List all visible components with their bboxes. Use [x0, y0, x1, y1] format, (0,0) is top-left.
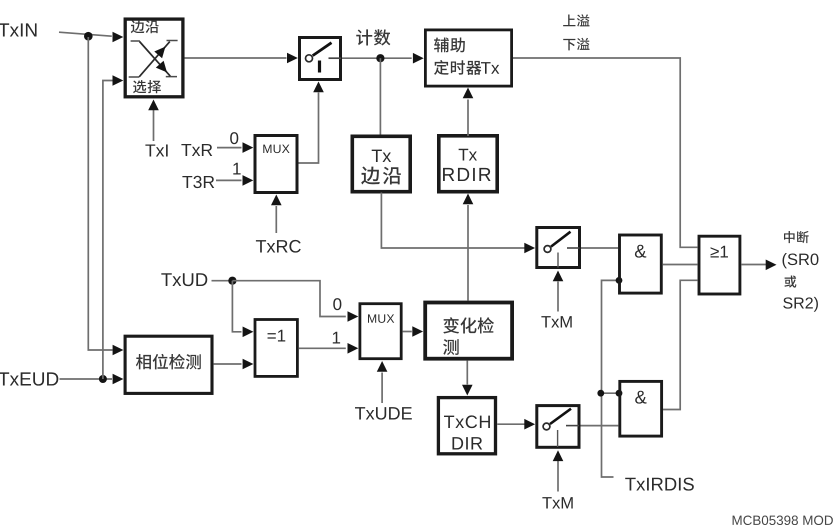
wire change-detector down to TxCH-DIR: [466, 361, 468, 385]
label 1 (MUX1 input 1): [233, 163, 240, 175]
arrowhead into aux timer: [413, 53, 424, 64]
switch S1 (count gate): [300, 38, 341, 80]
arrowhead TxI into edge-select: [148, 100, 159, 111]
label xiang-wei-jian-ce (phase detect): [136, 354, 201, 370]
arrowhead TxRC into MUX1: [271, 195, 282, 206]
wire TxM to switch S2: [557, 282, 559, 312]
label fu-zhu (auxiliary): [434, 37, 465, 52]
label ding-shi-qi Tx (timer Tx): [434, 60, 481, 75]
label Tx (Tx-edge line1): [372, 150, 391, 162]
label zhong-duan (interrupt): [784, 231, 809, 243]
edge-select crossing symbol: [129, 41, 178, 78]
wire MUX1 output to switch S1: [299, 93, 319, 164]
gate OR (>=1): [699, 236, 740, 294]
arrowhead TxUDE into MUX2: [377, 361, 388, 372]
arrowhead TxM into S2: [553, 271, 564, 282]
arrowhead into Tx-RDIR: [463, 194, 474, 205]
arrowhead into phase-detector lower input: [113, 374, 124, 385]
wire switch S3 output to AND2: [581, 425, 619, 427]
wire TxM to switch S3: [557, 461, 559, 492]
label TxUD: [161, 273, 207, 286]
label shang-yi (overflow): [563, 14, 589, 26]
switch S3 contact symbol: [543, 409, 579, 447]
wire TxI to edge-select: [153, 110, 155, 142]
arrowhead into switch S2: [524, 243, 535, 254]
label ji-shu (count): [356, 29, 390, 45]
arrowhead interrupt output: [766, 260, 777, 271]
label 0 (MUX2 input 0): [333, 298, 341, 310]
wire TxEUD: [60, 378, 113, 380]
junction TxIN: [84, 32, 93, 41]
label TxUDE: [355, 407, 412, 420]
label MUX2: [368, 314, 394, 323]
gate AND1 (&): [620, 235, 662, 293]
wire MUX2 output to change detector: [403, 331, 412, 333]
wire TxUD: [212, 280, 233, 282]
wire AND2 output to OR: [663, 280, 697, 409]
wire TxIN branch down to phase detector: [88, 37, 112, 350]
block edge-select (bian-yan xuan-ze): [125, 19, 183, 97]
label MUX1: [263, 145, 289, 154]
wire OR output (interrupt): [741, 264, 766, 266]
junction TxIRDIS line: [597, 390, 604, 397]
block TxCH-DIR: [438, 398, 495, 454]
arrowhead into switch S3: [524, 419, 535, 430]
wire phase-detector output to XOR: [214, 363, 242, 365]
wire count to aux timer: [342, 57, 412, 59]
wire TxUD to MUX2 input 0: [232, 281, 345, 317]
label xia-yi (underflow): [563, 38, 589, 51]
label TxEUD: [0, 372, 58, 385]
junction TxEUD: [99, 375, 107, 383]
label TxIN: [0, 23, 37, 36]
wire TxRC to MUX1: [275, 206, 277, 233]
label MCB05398 MOD: [733, 516, 833, 525]
label RDIR: [443, 168, 491, 181]
wire TxR to MUX1: [217, 147, 242, 149]
label 0 (MUX1 input 0): [230, 132, 238, 144]
gate AND2 (&): [620, 381, 662, 436]
label >=1: [711, 246, 728, 258]
label bian-yan (Tx-edge line2): [361, 167, 401, 185]
label xuan-ze (select): [133, 80, 161, 93]
wire XOR output to MUX2 input 1: [299, 347, 346, 349]
label huo (or): [785, 276, 797, 288]
wire overflow/underflow to OR gate: [513, 58, 697, 247]
arrowhead into MUX2 input 1: [348, 343, 359, 354]
label TxIRDIS: [625, 478, 694, 491]
arrowhead into MUX2 input 0: [348, 311, 359, 322]
label 1 (MUX2 input 1): [333, 332, 340, 344]
switch S2 contact symbol: [544, 232, 579, 268]
arrowhead into XOR upper input: [243, 327, 254, 338]
wire TxCH-DIR output to switch S3: [497, 423, 525, 425]
label T3R: [182, 176, 214, 188]
label & (AND1): [635, 245, 646, 258]
block MUX1 (reload mux): [255, 136, 297, 193]
label DIR: [452, 437, 482, 449]
block XOR =1: [255, 320, 297, 377]
junction TxIRDIS at AND2 input: [616, 390, 623, 397]
label (SR0: [783, 253, 819, 268]
label TxRC: [256, 240, 301, 253]
junction TxUD: [228, 277, 236, 285]
label bian-hua-jian (line1): [443, 317, 494, 333]
arrowhead into count switch: [287, 53, 298, 64]
label & (AND2): [635, 391, 646, 404]
arrowhead into phase-detector upper input: [113, 345, 124, 356]
label TxCH: [444, 415, 490, 428]
block MUX2 (direction mux): [360, 304, 401, 359]
wire TxUD branch to XOR: [232, 281, 241, 332]
label TxI: [145, 144, 167, 156]
arrowhead into edge-select upper input: [113, 32, 124, 43]
label bian-yan (edge): [131, 20, 159, 33]
wire Tx-edge output to switch S2: [381, 193, 524, 249]
arrowhead TxR into MUX1: [243, 142, 254, 153]
arrowhead into TxCH-DIR: [462, 385, 473, 396]
wire TxEUD branch up to edge-select lower input: [103, 81, 113, 380]
arrowhead into edge-select lower input: [113, 75, 124, 86]
wire switch S2 output to AND1: [581, 247, 618, 249]
switch S2 (interrupt gate upper): [537, 228, 580, 268]
wire TxIRDIS to AND2: [602, 392, 619, 394]
block aux-timer Tx (fu-zhu ding-shi-qi Tx): [425, 30, 511, 86]
arrowhead phase output into XOR: [243, 359, 254, 370]
wire Tx-RDIR output up to aux timer: [467, 100, 469, 137]
block Tx-edge (Tx bian-yan): [352, 136, 410, 191]
arrowhead TxM into S3: [553, 450, 564, 461]
label TxM (upper): [541, 316, 571, 327]
wire TxIN: [59, 32, 112, 36]
block change-detector (bian-hua jian-ce): [425, 303, 512, 359]
wire edge-select output to count switch: [185, 57, 287, 59]
wire change-detector up to Tx-RDIR: [467, 205, 469, 301]
switch S1 contact symbol: [306, 43, 342, 73]
label =1: [268, 330, 286, 342]
arrowhead T3R into MUX1: [243, 175, 254, 186]
wire count node down to Tx-edge block: [379, 58, 381, 135]
junction TxIRDIS at AND1 input: [616, 277, 623, 284]
arrowhead MUX1 output into S1: [313, 82, 324, 93]
label TxM (lower): [542, 497, 572, 508]
wire TxUDE to MUX2: [381, 373, 383, 404]
label TxR: [181, 144, 212, 156]
wire AND1 output to OR: [663, 264, 698, 266]
label Tx (RDIR line1): [459, 149, 477, 161]
label SR2): [783, 297, 818, 312]
label ce (line2): [443, 339, 459, 355]
wire T3R to MUX1: [216, 179, 242, 181]
arrowhead RDIR into aux timer: [463, 88, 474, 99]
junction count node: [376, 54, 384, 62]
arrowhead into change detector: [412, 326, 423, 337]
wire TxIRDIS net: [602, 280, 619, 477]
switch S3 (interrupt gate lower): [537, 406, 579, 448]
block phase-detector (xiang-wei jian-ce): [125, 336, 212, 393]
block Tx-RDIR: [439, 136, 497, 192]
